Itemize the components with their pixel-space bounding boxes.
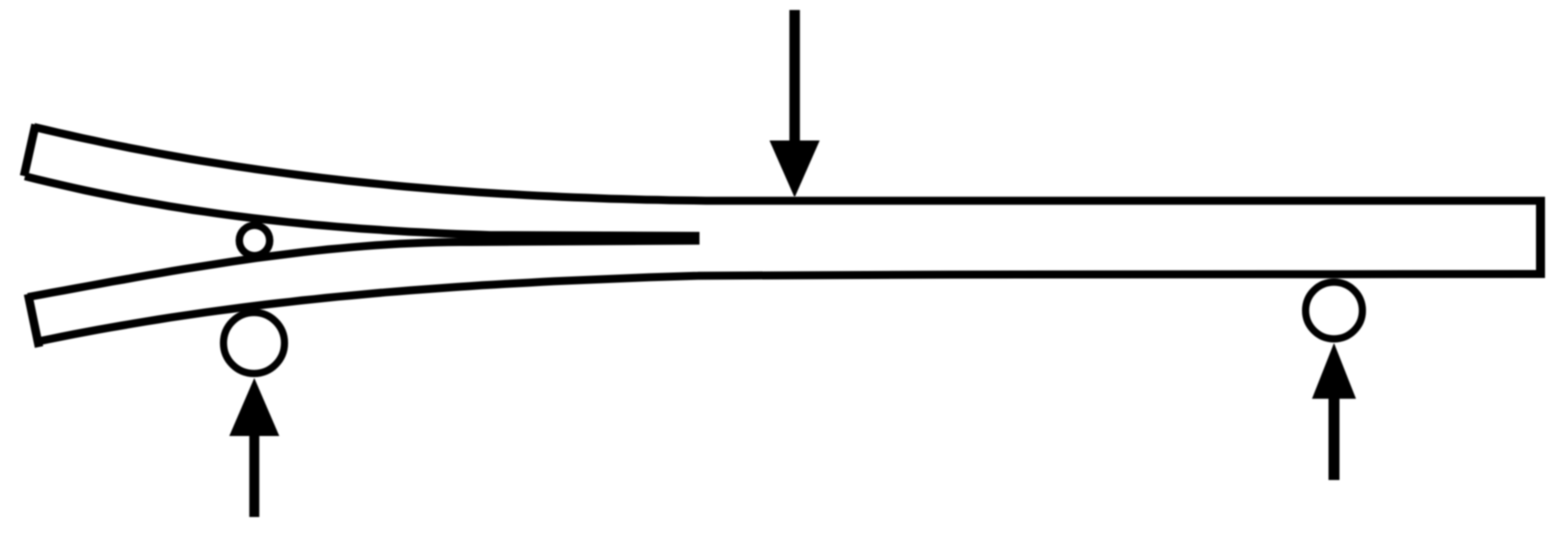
- applied load arrow (down) head: [770, 141, 820, 198]
- beam top outline (upper arm top edge continuing to beam right end): [34, 127, 1545, 201]
- right support roller: [1306, 282, 1363, 339]
- right reaction arrow (up) shaft: [1329, 394, 1340, 480]
- upper arm left end cap: [24, 125, 36, 177]
- beam bottom outline (lower arm bottom edge continuing to beam right end): [38, 274, 1545, 341]
- left reaction arrow (up) head: [229, 378, 279, 436]
- upper arm bottom edge (upper delamination face, merging into crack line): [25, 176, 700, 236]
- left support roller: [224, 313, 285, 374]
- left reaction arrow (up) shaft: [249, 425, 259, 517]
- right reaction arrow (up) head: [1312, 343, 1356, 399]
- small roller between delamination faces: [239, 225, 269, 255]
- beam right end cap: [1536, 197, 1545, 278]
- lower arm top edge (lower delamination face, merging into crack line): [28, 241, 700, 297]
- lower arm left end cap: [28, 294, 39, 347]
- applied load arrow (down) shaft: [789, 10, 800, 145]
